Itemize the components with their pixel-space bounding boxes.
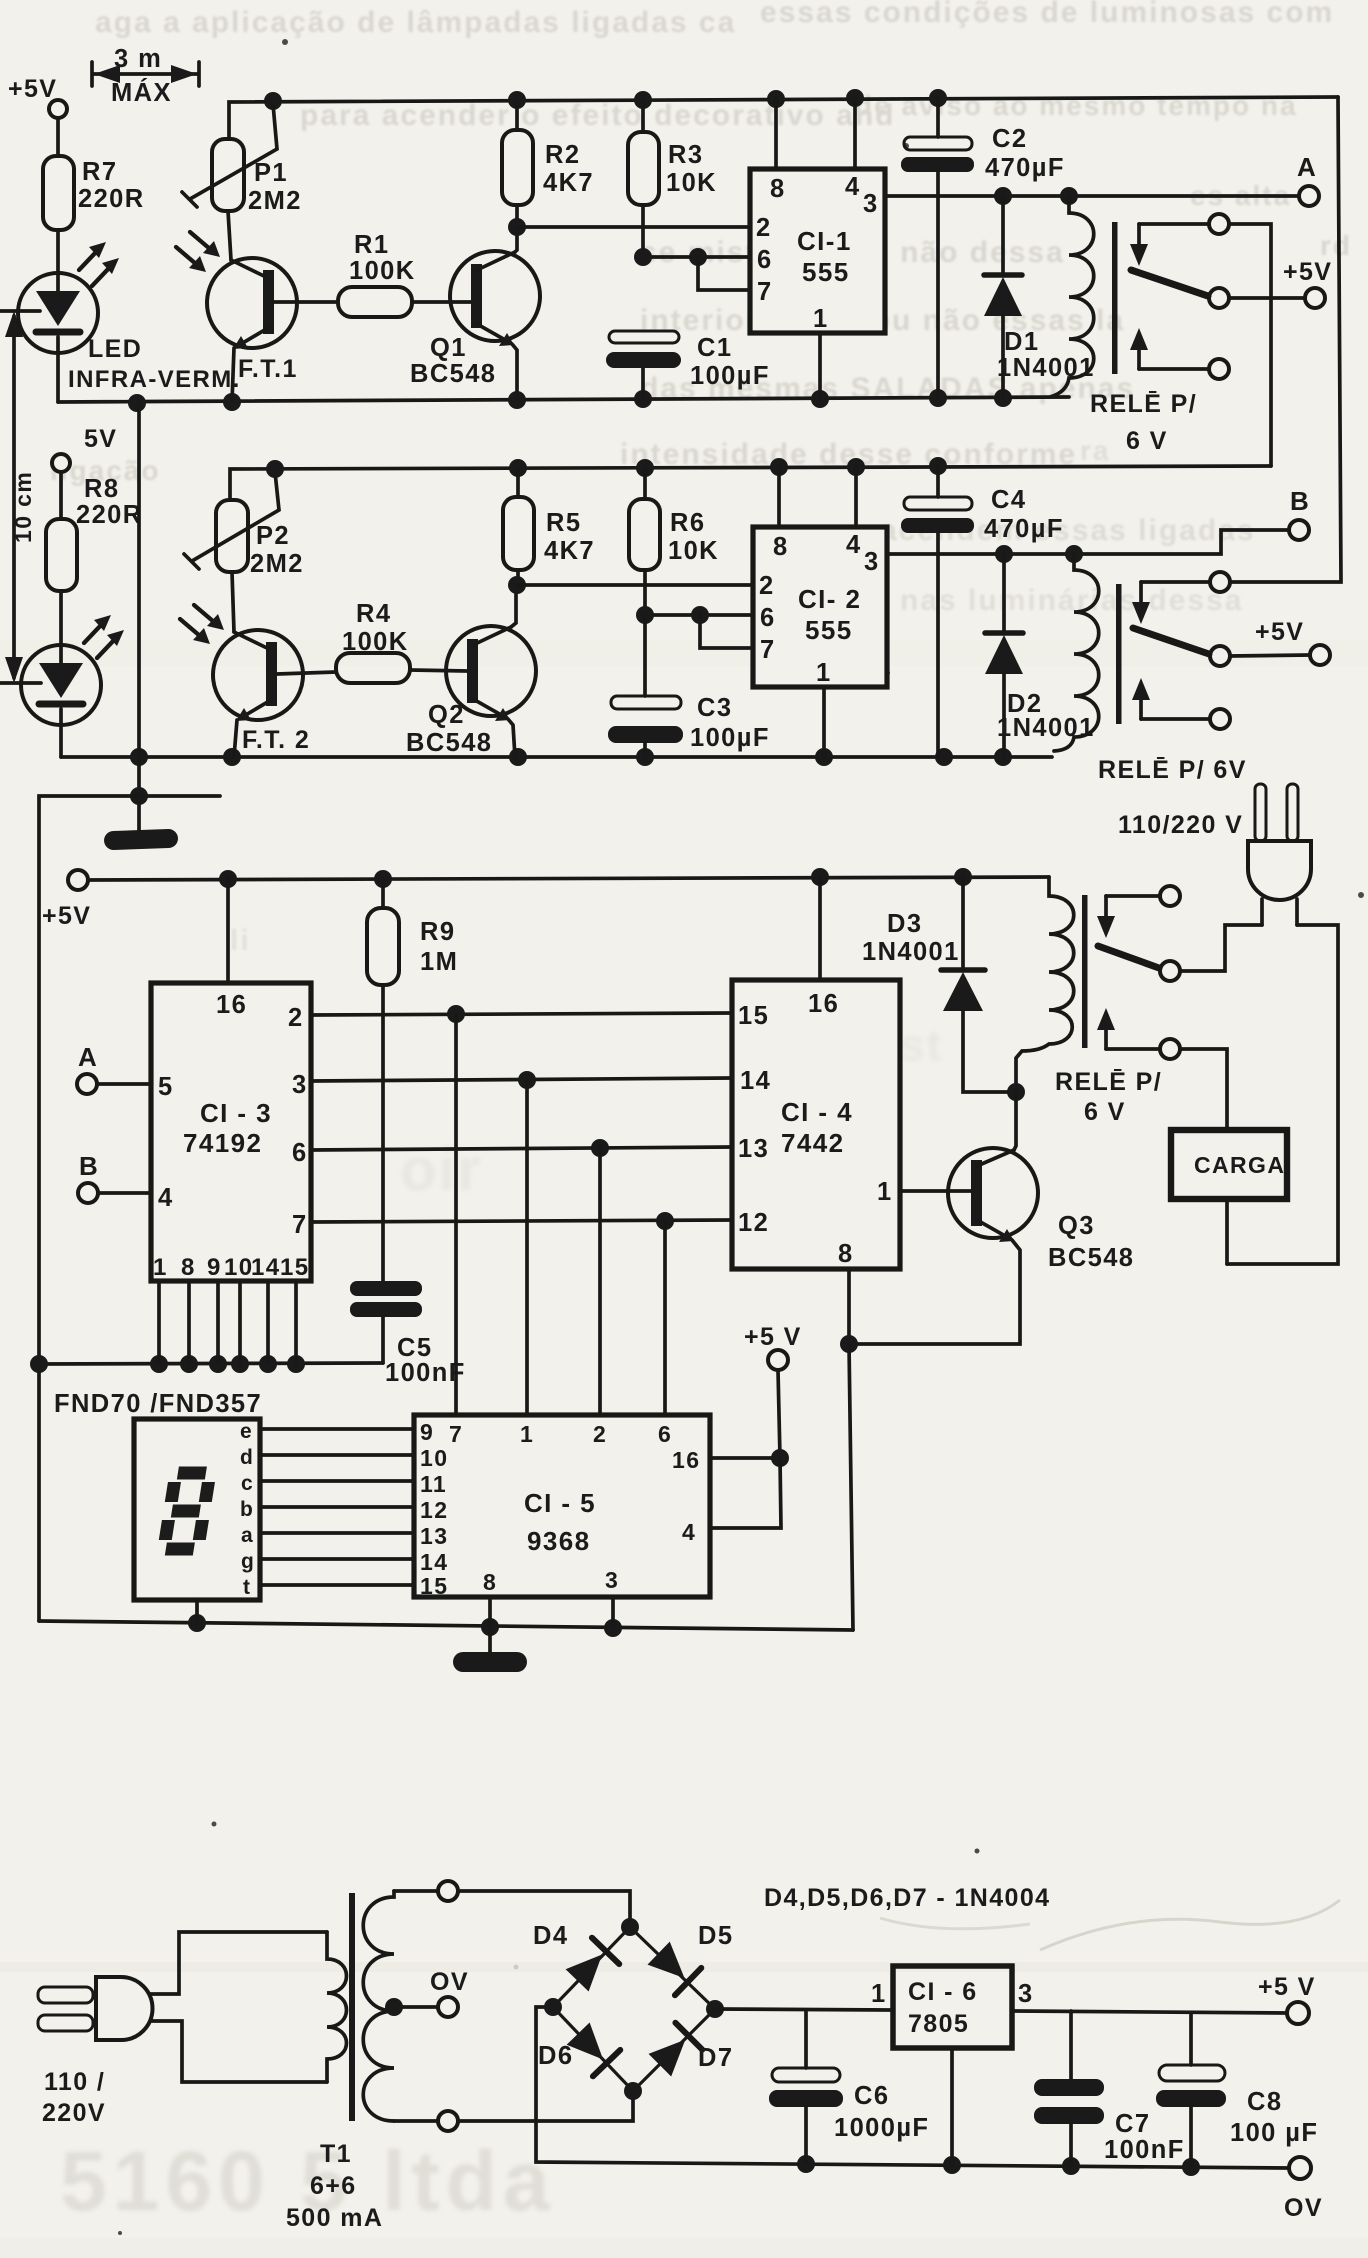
svg-text:1: 1 (877, 1178, 893, 1206)
svg-text:+5 V: +5 V (1258, 1973, 1316, 2001)
node: link junctions (130, 787, 148, 805)
diode D2 1N4001 (985, 554, 1023, 757)
node: top rail junctions (264, 89, 947, 110)
svg-text:16: 16 (808, 990, 839, 1018)
svg-text:7: 7 (449, 1421, 463, 1447)
svg-text:110/220 V: 110/220 V (1118, 811, 1243, 839)
svg-text:g: g (241, 1550, 255, 1573)
capacitor C5 100nF (350, 1281, 422, 1363)
IC CI-3 74192 (151, 983, 311, 1281)
svg-text:R1: R1 (354, 231, 389, 259)
relay 3 core (1082, 895, 1088, 1048)
svg-text:6: 6 (292, 1139, 308, 1167)
svg-text:1M: 1M (420, 948, 458, 976)
wire: node to CI-1 pin 2 (517, 225, 750, 229)
bridge rectifier frame (553, 1927, 715, 2091)
wire: Q1 emitter to bottom rail (512, 344, 517, 400)
IC CI-2 555 (753, 527, 887, 687)
svg-text:555: 555 (805, 615, 853, 645)
svg-text:R7: R7 (82, 158, 117, 186)
svg-text:16: 16 (672, 1447, 700, 1473)
wire: +5V to CI-5 pin 16 (710, 1370, 780, 1458)
wire: CI-6 output rail to +5V (1012, 2011, 1288, 2013)
LED infra-red 2 (21, 615, 124, 725)
svg-text:+5V: +5V (8, 75, 57, 103)
resistor R9 1M (367, 879, 399, 985)
svg-text:15: 15 (280, 1254, 310, 1281)
svg-text:15: 15 (738, 1002, 769, 1030)
capacitor C4 470uF (901, 466, 974, 757)
svg-text:4: 4 (846, 531, 862, 559)
wire: CI-5 pin 8 lead (488, 1597, 492, 1627)
wire: CI-2 pins 8,4,1 (779, 467, 856, 757)
terminal +5V (middle rail) (68, 870, 88, 890)
svg-text:ra: ra (1080, 435, 1110, 466)
capacitor C3 100uF (608, 615, 683, 757)
terminal +5V (CI-5) (768, 1350, 788, 1370)
wire: R4 to Q2 base (410, 670, 467, 671)
wire: channel A bottom rail (58, 397, 1069, 402)
svg-text:R4: R4 (356, 600, 391, 628)
wire: pin8 node down to bottom bus (849, 1344, 853, 1630)
wire: CI-3 bottom pin leads (159, 1281, 296, 1363)
svg-text:4: 4 (158, 1184, 174, 1212)
svg-text:a: a (241, 1524, 254, 1547)
svg-text:OV: OV (430, 1968, 469, 1996)
svg-text:14: 14 (420, 1549, 448, 1575)
node: 0V rail junctions (797, 2155, 1200, 2176)
svg-text:4: 4 (845, 173, 861, 201)
power plug (relay output) (1248, 784, 1311, 925)
resistor R7 220R (43, 156, 74, 230)
svg-text:15: 15 (420, 1573, 448, 1599)
svg-text:F.T.1: F.T.1 (238, 355, 298, 383)
svg-text:100nF: 100nF (1104, 2136, 1185, 2164)
wire: CI-6 ground lead (950, 2048, 954, 2165)
svg-text:12: 12 (738, 1209, 769, 1237)
svg-text:100µF: 100µF (690, 362, 770, 390)
transformer T1 secondary winding (363, 1891, 394, 2121)
svg-text:MÁX: MÁX (111, 78, 172, 107)
node: R2/Q1/pin2 junction (508, 218, 526, 236)
node: middle rail junctions (219, 868, 972, 888)
svg-text:P1: P1 (254, 159, 288, 187)
terminal A (counter input) (77, 1074, 151, 1094)
wire: CARGA bottom lead (1225, 1199, 1229, 1264)
svg-text:555: 555 (802, 257, 850, 287)
svg-text:4K7: 4K7 (543, 169, 594, 197)
svg-text:500 mA: 500 mA (286, 2204, 383, 2232)
wire: P1 to F.T.1 collector (228, 211, 231, 260)
svg-text:de aviso ao mesmo tempo na: de aviso ao mesmo tempo na (855, 90, 1298, 121)
wire: to bridge top vertex (458, 1891, 630, 1927)
svg-text:7: 7 (292, 1211, 308, 1239)
node: bridge vertices (544, 1918, 724, 2100)
svg-text:2: 2 (756, 214, 772, 242)
svg-text:6 V: 6 V (1126, 427, 1168, 455)
svg-text:D3: D3 (887, 910, 922, 938)
wire: CI-2 pin 3 output to B (887, 530, 1289, 554)
svg-text:T1: T1 (320, 2140, 352, 2168)
svg-text:+5V: +5V (1255, 618, 1304, 646)
svg-text:LED: LED (88, 335, 142, 363)
svg-text:D7: D7 (698, 2044, 733, 2072)
svg-text:R3: R3 (668, 141, 703, 169)
svg-text:8: 8 (483, 1569, 497, 1595)
svg-text:5V: 5V (84, 425, 117, 453)
svg-text:RELĒ P/ 6V: RELĒ P/ 6V (1098, 756, 1247, 784)
svg-text:7442: 7442 (781, 1128, 844, 1158)
svg-text:10 cm: 10 cm (10, 471, 36, 543)
svg-text:P2: P2 (256, 522, 290, 550)
wire: bottom ground bus (39, 1621, 853, 1630)
wire: CI-1 pin 6 line (643, 255, 750, 259)
svg-text:D4,D5,D6,D7 - 1N4004: D4,D5,D6,D7 - 1N4004 (764, 1884, 1050, 1912)
wire: relay A NC contact to vertical x=1271 down to channel B rail (1229, 224, 1271, 466)
svg-text:b: b (240, 1498, 254, 1521)
svg-text:14: 14 (251, 1254, 281, 1281)
svg-text:C7: C7 (1115, 2110, 1150, 2138)
wire: relay A NO/common to +5V (1229, 296, 1305, 300)
svg-text:C1: C1 (697, 334, 732, 362)
svg-text:7: 7 (757, 278, 773, 306)
terminal OV (centre tap) (438, 1997, 458, 2017)
capacitor C7 100nF (1034, 2011, 1104, 2166)
svg-text:2M2: 2M2 (250, 550, 304, 578)
wire: R7 to LED (56, 230, 60, 273)
relay A contacts and blade (1130, 214, 1229, 379)
wire: CI-3 ground bus line (39, 1363, 383, 1364)
resistor R6 10K (629, 468, 660, 615)
svg-text:1: 1 (520, 1421, 534, 1447)
svg-text:100K: 100K (342, 628, 409, 656)
IC CI-5 9368 (414, 1415, 710, 1597)
IC CI-6 7805 (893, 1966, 1012, 2048)
node: emitter/pin8 junction (840, 1335, 858, 1353)
svg-text:10: 10 (224, 1254, 254, 1281)
svg-text:CI - 5: CI - 5 (524, 1488, 596, 1518)
svg-text:B: B (1290, 486, 1310, 516)
svg-text:3: 3 (605, 1567, 619, 1593)
wire: R1 to Q1 base (412, 300, 471, 304)
wire: tap drops to CI-5 pins 7,1,2,6 (456, 1014, 665, 1415)
relay B core (1116, 584, 1122, 724)
svg-text:470µF: 470µF (985, 154, 1065, 182)
svg-text:li: li (230, 924, 251, 957)
wire: channel B bottom rail (61, 755, 1052, 759)
terminal +5V (relay A) (1305, 288, 1325, 308)
svg-text:C5: C5 (397, 1334, 432, 1362)
wire: right frame vertical from top rail to relay B NC contact (1230, 97, 1341, 582)
svg-text:R6: R6 (670, 509, 705, 537)
potentiometer P1 2M2 (182, 104, 277, 211)
transformer T1 primary winding (327, 1932, 347, 2082)
wire: CI-1 pin 8 to rail / pin 4 to rail / pin 1 to bottom (776, 98, 855, 399)
svg-text:1: 1 (816, 659, 832, 687)
svg-text:Q3: Q3 (1058, 1212, 1095, 1240)
wire: display to CI-5 segment lines (e d c b a g t) (260, 1429, 414, 1585)
diode D1 1N4001 (984, 196, 1022, 398)
IC CI-1 555 (750, 169, 885, 333)
wire: plug right lead to right vertical (1227, 925, 1338, 1264)
node: ground bus junctions (30, 1355, 305, 1373)
svg-text:2M2: 2M2 (248, 187, 302, 215)
relay A core (1112, 222, 1118, 374)
wire: Q2 emitter to rail (508, 719, 515, 757)
svg-text:9: 9 (207, 1254, 222, 1281)
wire: bus CI-3 pin3 to CI-4 pin14 (311, 1078, 732, 1081)
wire: R8 to LED2 (59, 591, 63, 645)
svg-text:11: 11 (420, 1471, 447, 1497)
capacitor C1 100uF (606, 331, 681, 399)
wire: 5V to R8 (59, 472, 63, 519)
svg-text:aga a aplicação de lâmpadas: aga a aplicação de lâmpadas ligadas ca (95, 6, 736, 39)
node: D1 and coil taps on pin3 line (994, 187, 1078, 205)
svg-text:14: 14 (740, 1067, 771, 1095)
node: pin16 junction (771, 1449, 789, 1467)
svg-text:RELĒ P/: RELĒ P/ (1090, 390, 1197, 418)
svg-text:8: 8 (181, 1254, 196, 1281)
wire: relay B NO/common to +5V (1230, 655, 1310, 656)
terminal B (1289, 520, 1309, 540)
svg-text:para acender o efeito decor: para acender o efeito decorativo and (300, 99, 896, 132)
wire: secondary bottom to bridge bottom vertex (crosses 0V drop) (458, 2091, 633, 2121)
svg-text:12: 12 (420, 1497, 448, 1523)
relay B contacts and blade (1132, 572, 1230, 729)
svg-text:FND70 /FND357: FND70 /FND357 (54, 1390, 262, 1418)
svg-text:10: 10 (420, 1445, 448, 1471)
resistor R8 220R (46, 519, 77, 591)
node: R6/C3 junction and pin6/7 junction (636, 606, 709, 624)
node: centre tap (385, 1998, 403, 2016)
wire: CI-1 pin 7 link (698, 257, 750, 290)
wire: CI-2 pin 7 link (700, 615, 753, 648)
resistor R4 100K (336, 653, 410, 683)
wire: vertical link between channel rails (137, 403, 141, 796)
digit 8 segments (164, 1473, 210, 1549)
relay 3 coil (1016, 877, 1074, 1092)
svg-text:Q1: Q1 (430, 334, 467, 362)
wire: Q2 collector to node R5 (511, 585, 516, 627)
faint page bleed-through text (50, 0, 1352, 957)
phototransistor F.T.1 (176, 232, 338, 349)
wire: rail to CI-3 pin 16 (226, 879, 230, 983)
svg-text:BC548: BC548 (1048, 1244, 1134, 1272)
svg-text:CARGA: CARGA (1194, 1152, 1285, 1178)
resistor R5 4K7 (503, 470, 534, 585)
transistor Q1 BC548 (450, 251, 540, 346)
svg-text:100K: 100K (349, 257, 416, 285)
svg-text:+5V: +5V (1283, 258, 1332, 286)
svg-text:3: 3 (292, 1071, 308, 1099)
IC CI-4 7442 (732, 980, 900, 1269)
svg-text:e: e (240, 1420, 253, 1443)
svg-text:6+6: 6+6 (310, 2172, 357, 2200)
svg-text:1000µF: 1000µF (834, 2114, 929, 2142)
wire: relay3 NO contact to CARGA (1180, 1049, 1227, 1130)
svg-text:d: d (240, 1446, 254, 1469)
svg-text:+5V: +5V (42, 902, 91, 930)
wire: Q1 collector to node R2 (515, 227, 517, 252)
terminal +5V (relay B) (1310, 645, 1330, 665)
wire: +5V to R7 (56, 118, 60, 156)
wire: CI-4 pin8 down (847, 1269, 851, 1344)
svg-text:9: 9 (420, 1419, 434, 1445)
diode D3 1N4001 (941, 877, 1016, 1092)
terminal B (counter input) (78, 1183, 151, 1203)
svg-text:A: A (78, 1042, 98, 1072)
wire: secondary top to bridge (394, 1889, 438, 1893)
LED infra-red 1 (18, 242, 119, 353)
svg-text:6: 6 (760, 604, 776, 632)
svg-text:D4: D4 (533, 1922, 568, 1950)
svg-text:CI- 2: CI- 2 (798, 584, 861, 614)
wire: bus CI-3 pin6 to CI-4 pin13 (311, 1147, 732, 1150)
node: D3/coil/Q3 junction (1007, 1083, 1025, 1101)
wire: Q3 collector (1014, 1092, 1016, 1150)
svg-text:c: c (241, 1472, 254, 1495)
svg-text:D1: D1 (1004, 328, 1039, 356)
svg-text:6 V: 6 V (1084, 1098, 1126, 1126)
transformer T1 core (349, 1893, 355, 2121)
node: channel B bottom rail junctions (130, 748, 1012, 766)
svg-text:A: A (1297, 152, 1317, 182)
svg-text:10K: 10K (668, 537, 719, 565)
dimension arrow 10 cm (0, 311, 41, 683)
terminal +5V (output) (1287, 2002, 1309, 2024)
svg-text:C8: C8 (1247, 2088, 1282, 2116)
svg-text:6: 6 (757, 246, 773, 274)
svg-text:Q2: Q2 (428, 701, 465, 729)
svg-text:8: 8 (770, 175, 786, 203)
svg-text:RELĒ P/: RELĒ P/ (1055, 1068, 1162, 1096)
wire: plug to transformer primary (150, 1932, 327, 1994)
relay A coil (1050, 196, 1094, 397)
wire: node to CI-2 pin 2 (517, 583, 753, 587)
capacitor C8 100uF (1156, 2013, 1226, 2167)
svg-text:4K7: 4K7 (544, 537, 595, 565)
node: D2 and coil taps on pin3 line (995, 545, 1083, 563)
svg-text:R8: R8 (84, 475, 119, 503)
svg-text:220R: 220R (76, 501, 143, 529)
resistor R3 10K (628, 100, 659, 257)
svg-text:nas luminárias dessa: nas luminárias dessa (900, 584, 1244, 617)
svg-text:3: 3 (1018, 1980, 1034, 2008)
wire: bus CI-3 pin2 to CI-4 pin15 (311, 1013, 732, 1015)
svg-text:220V: 220V (42, 2099, 106, 2127)
terminal OV (output) (1289, 2157, 1311, 2179)
svg-text:BC548: BC548 (406, 729, 492, 757)
wire: bridge plus vertex to CI-6 (715, 2009, 893, 2010)
svg-text:C4: C4 (991, 486, 1026, 514)
svg-text:100nF: 100nF (385, 1359, 466, 1387)
wire: relay3 common to plug left lead (1180, 925, 1262, 971)
svg-text:rd: rd (1320, 230, 1352, 261)
svg-text:st: st (900, 1021, 943, 1070)
wire: bus CI-3 pin7 to CI-4 pin12 (311, 1220, 732, 1222)
wire: LED2 to bottom rail (59, 725, 63, 757)
wire: bridge minus vertex to 0V rail (536, 2007, 1289, 2168)
node: R3/C1 junction and pin6/7 junction (634, 248, 707, 266)
wire: CI-2 pin 6 line (645, 613, 753, 617)
scanner scratch artifacts near CI-6 (1040, 1900, 1340, 1950)
svg-text:D5: D5 (698, 1922, 733, 1950)
load box CARGA (1171, 1130, 1287, 1199)
svg-text:oir: oir (400, 1136, 483, 1203)
svg-text:7805: 7805 (908, 2010, 969, 2038)
svg-text:9368: 9368 (527, 1526, 590, 1556)
svg-text:D6: D6 (538, 2042, 573, 2070)
wire: secondary centre tap to OV (394, 2005, 438, 2009)
resistor R1 100K (338, 287, 412, 317)
wire: F.T.1 emitter to bottom rail (232, 348, 234, 402)
wire: junction to CI-5 pin 4 (710, 1458, 781, 1528)
svg-text:74192: 74192 (183, 1128, 262, 1158)
svg-text:220R: 220R (78, 185, 145, 213)
wire: CI-1 pin 3 output line to A (885, 194, 1299, 198)
svg-text:110 /: 110 / (44, 2068, 105, 2096)
svg-text:6: 6 (658, 1421, 672, 1447)
svg-text:13: 13 (738, 1135, 769, 1163)
wire: CI-4 pin16 to rail (818, 877, 822, 980)
svg-text:CI - 6: CI - 6 (908, 1978, 978, 2006)
node: bottom rail junctions (128, 389, 1012, 412)
svg-text:R9: R9 (420, 918, 455, 946)
wire: Q3 emitter to pin8 node (849, 1240, 1020, 1344)
relay B coil (1054, 554, 1099, 751)
svg-text:3: 3 (864, 548, 880, 576)
wire: LED to bottom rail (56, 353, 60, 402)
diode D4 (563, 1938, 619, 1994)
wire: P2 to F.T.2 collector (232, 572, 234, 632)
node: channel B top rail junctions (266, 457, 947, 478)
svg-text:t: t (243, 1576, 251, 1599)
svg-text:2: 2 (593, 1421, 607, 1447)
svg-text:essas condições de luminosa: essas condições de luminosas com (760, 0, 1334, 29)
svg-text:10K: 10K (666, 169, 717, 197)
terminal A (1299, 186, 1319, 206)
svg-text:1: 1 (813, 305, 829, 333)
svg-text:100 µF: 100 µF (1230, 2119, 1318, 2147)
svg-text:CI - 3: CI - 3 (200, 1098, 272, 1128)
svg-text:B: B (79, 1151, 99, 1181)
wire: secondary bottom (394, 2119, 438, 2123)
svg-text:3: 3 (863, 190, 879, 218)
svg-text:C6: C6 (854, 2082, 889, 2110)
svg-text:5: 5 (158, 1073, 174, 1101)
node: bottom bus junctions (188, 1614, 622, 1637)
svg-text:3 m: 3 m (114, 45, 162, 73)
svg-text:CI-1: CI-1 (797, 226, 852, 256)
wire: +V top rail of channel A (229, 97, 1338, 139)
7-segment display FND70 (134, 1419, 260, 1623)
diode D5 (645, 1939, 701, 1995)
resistor R2 4K7 (502, 102, 533, 227)
svg-text:2: 2 (288, 1004, 304, 1032)
terminal secondary bottom (438, 2111, 458, 2131)
svg-text:+5 V: +5 V (744, 1323, 802, 1351)
ground (channels) (104, 796, 179, 850)
capacitor C2 470uF (901, 98, 974, 398)
mains plug (38, 1977, 153, 2040)
diode D6 (564, 2020, 620, 2076)
wire: R9 to C5 (381, 985, 385, 1281)
svg-text:8: 8 (838, 1240, 854, 1268)
wire: ground stub line (39, 796, 220, 1621)
wire: CI-5 pin 3 lead (611, 1597, 615, 1628)
svg-text:CI - 4: CI - 4 (781, 1097, 853, 1127)
transistor Q3 BC548 (948, 1148, 1038, 1242)
